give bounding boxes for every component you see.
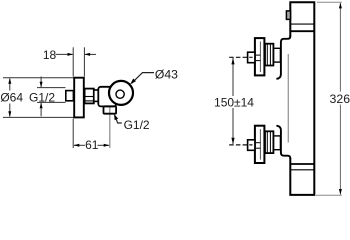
svg-text:61: 61 [85, 138, 99, 152]
svg-text:Ø43: Ø43 [155, 67, 178, 81]
svg-text:G1/2: G1/2 [124, 118, 150, 132]
svg-text:326: 326 [330, 92, 350, 106]
svg-text:150±14: 150±14 [214, 95, 254, 109]
svg-text:Ø64: Ø64 [0, 91, 23, 105]
svg-text:18: 18 [43, 48, 57, 62]
svg-text:G1/2: G1/2 [29, 91, 55, 105]
